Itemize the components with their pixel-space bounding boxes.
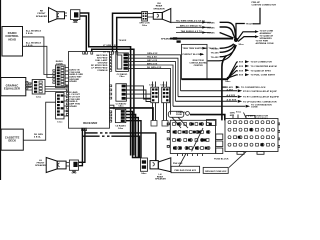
svg-text:SPEAKER: SPEAKER	[36, 15, 48, 18]
svg-text:TO QUAD AT SPKS: TO QUAD AT SPKS	[251, 69, 272, 72]
svg-text:PNK 4XX: PNK 4XX	[173, 162, 183, 165]
svg-text:TO AT CONNECTOR: TO AT CONNECTOR	[251, 61, 273, 64]
svg-text:4XX: 4XX	[230, 114, 235, 117]
svg-text:CONN: CONN	[56, 64, 63, 66]
svg-text:RH: RH	[157, 3, 161, 5]
svg-text:SPEAKER: SPEAKER	[35, 164, 46, 167]
svg-text:S4xx: S4xx	[225, 80, 231, 83]
svg-text:S2xx: S2xx	[239, 44, 245, 46]
svg-text:A 41 XXX: A 41 XXX	[227, 99, 237, 102]
svg-text:CONN: CONN	[251, 107, 258, 109]
svg-text:BRN 4 XX: BRN 4 XX	[147, 62, 158, 65]
svg-text:C2xx: C2xx	[149, 85, 155, 87]
svg-text:DECK: DECK	[8, 139, 16, 143]
svg-text:GRD: GRD	[73, 22, 78, 24]
svg-text:4 XXX: 4 XXX	[237, 74, 244, 77]
svg-text:C4xx: C4xx	[142, 24, 148, 27]
svg-text:TO CONVERTER ASSYM: TO CONVERTER ASSYM	[251, 65, 277, 68]
svg-text:4 XXX: 4 XXX	[237, 69, 244, 72]
svg-text:SPARE: SPARE	[69, 105, 77, 108]
svg-text:CUSTOM CONNECTOR: CUSTOM CONNECTOR	[252, 5, 277, 7]
svg-text:C4xx: C4xx	[118, 127, 124, 130]
svg-text:CENTER: CENTER	[194, 65, 204, 67]
svg-text:RT RX CONTROLLER AT EQUIP: RT RX CONTROLLER AT EQUIP	[243, 90, 277, 93]
svg-text:TN 4XX: TN 4XX	[207, 32, 215, 35]
svg-text:PNK RAD FUSE 4XX: PNK RAD FUSE 4XX	[174, 169, 196, 172]
svg-text:TN 4XX: TN 4XX	[207, 21, 215, 24]
svg-text:YEL WIRE SHIELD 4 XX TO: YEL WIRE SHIELD 4 XX TO	[176, 20, 205, 23]
svg-text:TN 4XX: TN 4XX	[246, 23, 254, 26]
svg-text:C1xx: C1xx	[57, 122, 63, 124]
svg-text:ORN 4 XX: ORN 4 XX	[147, 52, 158, 55]
svg-text:GRD: GRD	[72, 172, 77, 174]
svg-text:4 B 4L: 4 B 4L	[34, 136, 41, 139]
svg-text:S1xx: S1xx	[236, 112, 242, 114]
svg-text:SPEAKER: SPEAKER	[153, 7, 165, 10]
svg-text:COMMON: COMMON	[97, 70, 108, 72]
svg-text:YEL 4 XX: YEL 4 XX	[147, 56, 157, 59]
svg-text:RECEIVER: RECEIVER	[83, 121, 97, 125]
svg-text:S4xx: S4xx	[141, 172, 147, 175]
svg-text:ORN BAT FUSE 4XX: ORN BAT FUSE 4XX	[205, 170, 227, 173]
svg-text:GRY 4 XX: GRY 4 XX	[147, 59, 158, 62]
svg-text:A 4XX: A 4XX	[227, 88, 234, 91]
svg-text:SPEAKER: SPEAKER	[161, 38, 172, 41]
svg-text:HEAD: HEAD	[8, 37, 16, 41]
svg-text:4 XXX: 4 XXX	[237, 61, 244, 64]
svg-text:4 XXX: 4 XXX	[237, 65, 244, 68]
svg-text:C2xx: C2xx	[161, 85, 167, 87]
svg-text:TO CONVERTER LOCK: TO CONVERTER LOCK	[241, 87, 266, 89]
svg-text:DK GRN 4 XX: DK GRN 4 XX	[147, 66, 162, 69]
svg-text:ANTENNA CONN: ANTENNA CONN	[256, 42, 274, 45]
svg-text:C2xx: C2xx	[36, 97, 42, 99]
svg-text:REAR: REAR	[156, 5, 163, 8]
svg-text:3 B 4L: 3 B 4L	[26, 44, 34, 47]
svg-text:SPEAKER: SPEAKER	[155, 178, 166, 180]
svg-text:TRIM TRIM WHITE MRN: TRIM TRIM WHITE MRN	[183, 48, 209, 50]
svg-text:FOR DETAIL: FOR DETAIL	[255, 117, 269, 120]
svg-text:TN 4XX: TN 4XX	[209, 47, 217, 50]
svg-text:BRN 4 X SHIELD TO: BRN 4 X SHIELD TO	[180, 25, 202, 28]
svg-text:C4xx: C4xx	[119, 75, 125, 78]
svg-text:FUSE: FUSE	[176, 114, 182, 116]
svg-text:EQUALIZER: EQUALIZER	[4, 87, 20, 91]
svg-text:TO RT CONTROLLER AT EQUIPM: TO RT CONTROLLER AT EQUIPM	[243, 96, 279, 99]
svg-text:SPEAKERS: SPEAKERS	[260, 37, 273, 40]
svg-text:SPARE: SPARE	[69, 80, 77, 83]
svg-text:TN 4XX: TN 4XX	[211, 51, 219, 54]
svg-text:TN 4XX: TN 4XX	[207, 26, 215, 29]
svg-text:DK GRN 4 XX: DK GRN 4 XX	[103, 51, 118, 54]
svg-text:LT GRN 4 XX: LT GRN 4 XX	[103, 44, 117, 47]
svg-text:A 4 XXX: A 4 XXX	[227, 94, 236, 97]
svg-text:ASSEMBLY: ASSEMBLY	[260, 32, 273, 35]
svg-text:TO FUEL CONN SWITH: TO FUEL CONN SWITH	[251, 75, 276, 77]
svg-text:TN 4XX: TN 4XX	[119, 39, 127, 42]
svg-text:C4xx: C4xx	[118, 105, 124, 108]
svg-text:PURPHIT BLU MRN: PURPHIT BLU MRN	[183, 54, 204, 56]
svg-text:TO UP ELECTRIC CONNECTOR: TO UP ELECTRIC CONNECTOR	[243, 101, 277, 103]
svg-text:FUSE BLOCK: FUSE BLOCK	[214, 159, 229, 161]
svg-text:TAN SHIELD 4 X TO: TAN SHIELD 4 X TO	[181, 30, 202, 33]
svg-text:2 B 4L: 2 B 4L	[26, 32, 34, 35]
svg-text:TN 4XX: TN 4XX	[211, 56, 219, 59]
